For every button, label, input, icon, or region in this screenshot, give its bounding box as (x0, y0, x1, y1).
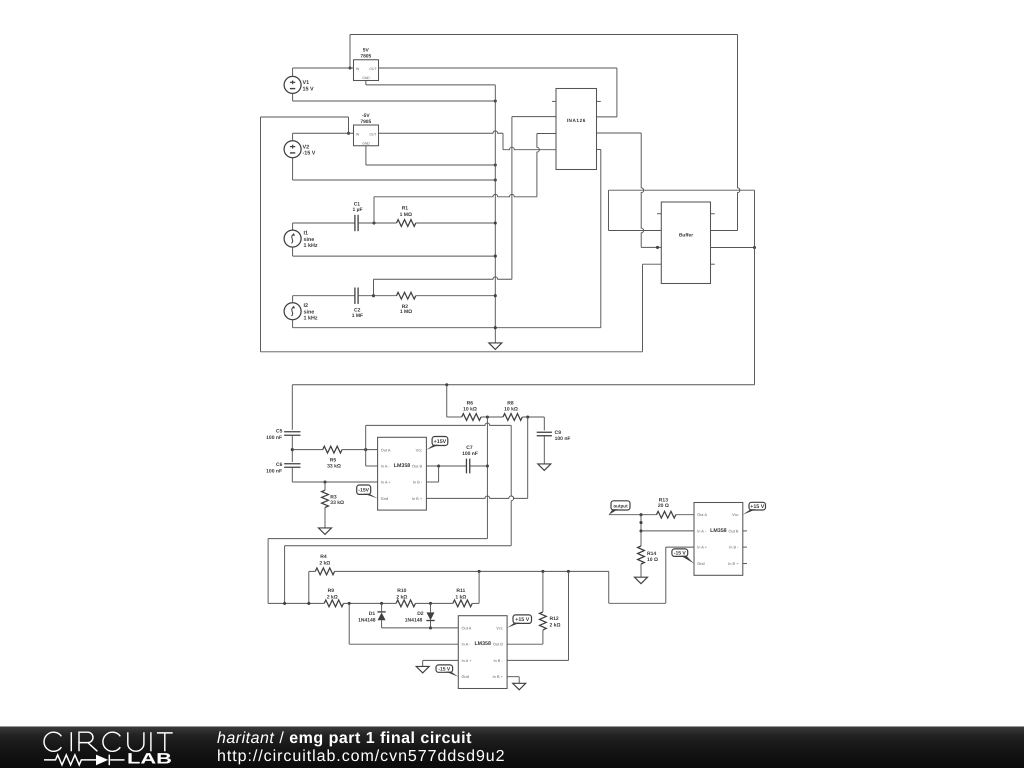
svg-text:GND: GND (362, 141, 370, 145)
svg-text:LM358: LM358 (394, 463, 411, 469)
svg-text:OUT: OUT (369, 67, 377, 71)
svg-text:C6: C6 (276, 462, 283, 468)
svg-text:sine: sine (304, 309, 315, 315)
svg-text:IN: IN (356, 133, 360, 137)
svg-text:1 MΩ: 1 MΩ (400, 212, 412, 218)
svg-text:Gnd: Gnd (381, 496, 388, 501)
svg-text:100 nF: 100 nF (266, 469, 282, 475)
svg-text:1 µF: 1 µF (352, 207, 362, 213)
svg-text:10 kΩ: 10 kΩ (504, 406, 518, 412)
svg-text:2 kΩ: 2 kΩ (319, 561, 330, 567)
svg-text:7805: 7805 (360, 54, 371, 60)
svg-text:R9: R9 (328, 588, 335, 594)
svg-text:Out A: Out A (462, 625, 472, 630)
svg-text:-15V: -15V (358, 488, 369, 494)
svg-text:Gnd: Gnd (462, 674, 469, 679)
svg-text:I2: I2 (304, 303, 309, 309)
svg-text:LM358: LM358 (710, 528, 727, 534)
svg-text:1N4148: 1N4148 (358, 618, 376, 624)
svg-text:Buffer: Buffer (679, 232, 693, 238)
svg-text:In B -: In B - (729, 545, 739, 550)
svg-text:Vcc: Vcc (496, 625, 503, 630)
svg-text:R1: R1 (402, 206, 409, 212)
svg-text:Vcc: Vcc (416, 447, 423, 452)
svg-text:7905: 7905 (360, 119, 371, 125)
svg-text:R10: R10 (397, 588, 406, 594)
svg-text:1 kHz: 1 kHz (304, 316, 318, 322)
svg-text:1 MΩ: 1 MΩ (400, 309, 412, 315)
svg-text:33 kΩ: 33 kΩ (327, 463, 341, 469)
svg-text:20 Ω: 20 Ω (658, 503, 669, 509)
svg-text:In B -: In B - (493, 658, 503, 663)
svg-text:In A -: In A - (462, 642, 472, 647)
svg-text:Vcc: Vcc (732, 512, 739, 517)
svg-text:I1: I1 (304, 231, 309, 237)
svg-text:5V: 5V (363, 48, 370, 54)
svg-text:R8: R8 (507, 400, 514, 406)
svg-text:+15V: +15V (434, 439, 447, 445)
svg-text:-5V: -5V (362, 113, 370, 119)
svg-text:output: output (613, 503, 628, 508)
svg-text:sine: sine (304, 237, 315, 243)
svg-text:1N4148: 1N4148 (405, 618, 423, 624)
svg-text:15 V: 15 V (303, 86, 314, 92)
svg-text:10 kΩ: 10 kΩ (463, 406, 477, 412)
svg-text:33 kΩ: 33 kΩ (330, 500, 344, 506)
svg-text:10 Ω: 10 Ω (647, 557, 658, 563)
svg-text:C7: C7 (466, 445, 473, 451)
svg-text:+15 V: +15 V (750, 504, 764, 510)
svg-text:C9: C9 (555, 430, 562, 436)
svg-text:In B +: In B + (412, 496, 423, 501)
svg-text:D1: D1 (369, 611, 376, 617)
svg-text:V2: V2 (303, 145, 310, 151)
svg-text:In A -: In A - (381, 464, 391, 469)
svg-text:In B +: In B + (728, 561, 739, 566)
svg-text:+15 V: +15 V (515, 617, 529, 623)
svg-text:-15 V: -15 V (303, 151, 316, 157)
svg-text:R12: R12 (550, 616, 559, 622)
svg-text:1 kΩ: 1 kΩ (455, 595, 466, 601)
svg-text:R11: R11 (456, 588, 465, 594)
svg-text:V1: V1 (303, 80, 310, 86)
svg-text:Out B: Out B (729, 528, 739, 533)
svg-text:Out A: Out A (697, 512, 707, 517)
svg-text:Out A: Out A (381, 447, 391, 452)
svg-text:100 nF: 100 nF (462, 451, 478, 457)
svg-text:IN: IN (356, 67, 360, 71)
svg-text:LM358: LM358 (474, 641, 491, 647)
svg-text:In A +: In A + (462, 658, 473, 663)
svg-text:100 nF: 100 nF (555, 436, 571, 442)
svg-text:2 kΩ: 2 kΩ (396, 595, 407, 601)
svg-text:Gnd: Gnd (697, 561, 704, 566)
svg-text:LAB: LAB (127, 750, 172, 767)
svg-text:R6: R6 (467, 400, 474, 406)
svg-text:2 kΩ: 2 kΩ (550, 623, 561, 629)
svg-text:OUT: OUT (369, 133, 377, 137)
svg-text:-15 V: -15 V (438, 667, 451, 673)
svg-text:2 kΩ: 2 kΩ (327, 595, 338, 601)
svg-text:100 nF: 100 nF (266, 435, 282, 441)
svg-text:Out B: Out B (493, 642, 503, 647)
svg-text:1 MF: 1 MF (352, 313, 363, 319)
svg-text:In A +: In A + (381, 480, 392, 485)
svg-text:In A -: In A - (697, 528, 707, 533)
svg-text:D2: D2 (417, 611, 424, 617)
svg-text:Out B: Out B (412, 464, 422, 469)
svg-text:In B +: In B + (493, 674, 504, 679)
svg-text:GND: GND (362, 76, 370, 80)
svg-text:In B -: In B - (413, 480, 423, 485)
svg-text:C5: C5 (276, 428, 283, 434)
svg-text:In A +: In A + (697, 545, 708, 550)
svg-text:1 kHz: 1 kHz (304, 243, 318, 249)
svg-text:INA126: INA126 (567, 118, 586, 123)
svg-text:-15 V: -15 V (674, 551, 687, 557)
svg-text:R4: R4 (320, 554, 327, 560)
